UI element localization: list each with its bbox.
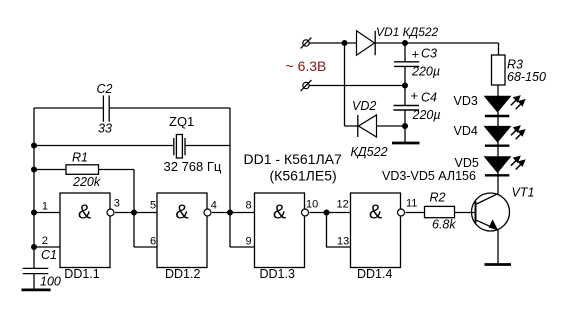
gate DD1.4 bbox=[351, 193, 405, 281]
junction node DD1.3-DD1.4 bbox=[324, 210, 330, 216]
svg-text:3: 3 bbox=[114, 198, 120, 210]
junction node DD1.1-DD1.2 bbox=[131, 210, 137, 216]
svg-text:&: & bbox=[369, 202, 383, 224]
svg-text:8: 8 bbox=[246, 200, 252, 212]
svg-text:6: 6 bbox=[150, 236, 156, 248]
svg-text:C3: C3 bbox=[421, 47, 437, 61]
svg-text:КД522: КД522 bbox=[351, 145, 388, 159]
wire: crystal wire left bbox=[34, 145, 174, 147]
capacitor C4 bbox=[404, 86, 406, 127]
svg-text:9: 9 bbox=[246, 236, 252, 248]
wire: DD1.4 pin13 tap bbox=[327, 213, 351, 248]
svg-text:2: 2 bbox=[42, 235, 48, 247]
gate DD1.1 bbox=[60, 193, 114, 281]
ground bar VT1 bbox=[485, 263, 512, 266]
svg-text:DD1.3: DD1.3 bbox=[260, 267, 295, 281]
svg-text:VD3-VD5 АЛ156: VD3-VD5 АЛ156 bbox=[382, 169, 476, 183]
svg-text:(К561ЛЕ5): (К561ЛЕ5) bbox=[270, 168, 337, 184]
svg-text:6.8k: 6.8k bbox=[432, 218, 456, 232]
svg-text:13: 13 bbox=[337, 236, 349, 248]
wire: vertical to VD2 bbox=[345, 43, 359, 126]
svg-text:4: 4 bbox=[211, 200, 217, 212]
ground bar power bbox=[392, 142, 420, 145]
junction dots left rail bbox=[31, 143, 37, 149]
terminal top bbox=[303, 40, 309, 46]
wire: R1 left bbox=[34, 169, 66, 171]
wire: right vertical of oscillator loop x=230 bbox=[229, 108, 231, 247]
wire: VD2 to node bbox=[377, 125, 406, 127]
wire: top terminal to VD1 bbox=[309, 42, 356, 44]
resistor R1 bbox=[66, 165, 99, 175]
wire: DD1.1 out to DD1.2 in bbox=[115, 212, 157, 214]
svg-text:ZQ1: ZQ1 bbox=[169, 114, 194, 129]
svg-text:VD1 КД522: VD1 КД522 bbox=[376, 25, 439, 39]
svg-text:+: + bbox=[411, 88, 419, 103]
svg-text:68-150: 68-150 bbox=[507, 70, 546, 84]
wire: left rail x=34 bbox=[33, 108, 35, 268]
wire: top C2 wire right bbox=[110, 107, 230, 109]
wire: DD1.2 pin6 tap bbox=[134, 246, 157, 248]
svg-text:VD5: VD5 bbox=[455, 156, 479, 170]
svg-text:&: & bbox=[175, 202, 189, 224]
wire: emitter down bbox=[497, 230, 499, 263]
LED VD5 bbox=[485, 157, 511, 173]
junction dots power bbox=[342, 40, 348, 46]
svg-text:DD1.4: DD1.4 bbox=[357, 267, 392, 281]
svg-text:DD1 - К561ЛА7: DD1 - К561ЛА7 bbox=[244, 151, 342, 167]
wire: top C2 wire left bbox=[34, 107, 103, 109]
VD3 arrows bbox=[511, 96, 525, 109]
svg-text:1: 1 bbox=[42, 201, 48, 213]
svg-text:220µ: 220µ bbox=[411, 65, 440, 79]
svg-text:VD3: VD3 bbox=[454, 94, 478, 108]
capacitor C3 bbox=[404, 43, 406, 86]
svg-text:10: 10 bbox=[306, 199, 318, 211]
resistor R2 bbox=[425, 206, 455, 217]
wire: crystal wire right bbox=[185, 145, 230, 147]
svg-text:C4: C4 bbox=[421, 91, 437, 105]
svg-text:DD1.2: DD1.2 bbox=[165, 267, 200, 281]
wire: DD1.3 out to DD1.4 in bbox=[310, 212, 351, 214]
resistor R3 bbox=[492, 55, 506, 85]
diode VD2 bbox=[359, 115, 377, 137]
VD5 arrows bbox=[511, 156, 525, 169]
wire: R2 to base bbox=[455, 212, 476, 214]
svg-text:C2: C2 bbox=[97, 82, 113, 96]
crystal ZQ1 bbox=[174, 138, 185, 155]
diode VD1 bbox=[357, 31, 375, 55]
svg-text:11: 11 bbox=[406, 198, 417, 210]
svg-text:33: 33 bbox=[98, 122, 112, 136]
svg-text:C1: C1 bbox=[41, 248, 57, 262]
svg-text:~ 6.3В: ~ 6.3В bbox=[286, 58, 327, 74]
LED VD3 bbox=[485, 96, 511, 112]
wire: DD1.2 out to DD1.3 in bbox=[212, 212, 255, 214]
terminal bottom bbox=[303, 82, 309, 88]
svg-text:5: 5 bbox=[150, 200, 156, 212]
ground bar under C1 bbox=[22, 288, 51, 291]
svg-text:&: & bbox=[273, 202, 287, 224]
svg-text:VD2: VD2 bbox=[352, 99, 376, 113]
capacitor C2 bbox=[103, 96, 109, 122]
gate DD1.2 bbox=[157, 193, 211, 281]
capacitor C1 bbox=[23, 268, 49, 273]
svg-text:R2: R2 bbox=[430, 191, 446, 205]
LED VD4 bbox=[485, 126, 511, 142]
svg-text:VT1: VT1 bbox=[512, 186, 535, 200]
transistor VT1 bbox=[472, 186, 535, 231]
wire: C1 to ground bbox=[33, 274, 35, 289]
wire: DD1.1 pin1 bbox=[34, 212, 60, 214]
wire: R1 right + down bbox=[99, 170, 135, 248]
svg-text:R1: R1 bbox=[72, 151, 88, 165]
VD4 arrows bbox=[511, 126, 525, 139]
svg-text:&: & bbox=[78, 202, 92, 224]
wire: DD1.1 pin2 bbox=[34, 246, 60, 248]
svg-text:220k: 220k bbox=[72, 175, 101, 189]
wire: LED chain vertical bbox=[497, 85, 499, 194]
wire: VD1 to C3 node and right bbox=[375, 43, 498, 55]
svg-text:DD1.1: DD1.1 bbox=[64, 267, 99, 281]
svg-text:220µ: 220µ bbox=[412, 108, 441, 122]
wire: DD1.3 pin9 tap bbox=[230, 246, 255, 248]
wire: node to ground bbox=[404, 126, 406, 142]
svg-text:VD4: VD4 bbox=[454, 124, 478, 138]
wire: bottom terminal to C3/C4 node bbox=[309, 85, 405, 87]
svg-text:100: 100 bbox=[40, 275, 61, 289]
svg-text:32 768 Гц: 32 768 Гц bbox=[164, 159, 222, 174]
svg-text:+: + bbox=[412, 47, 420, 62]
gate DD1.3 bbox=[255, 193, 309, 281]
junction node DD1.2-DD1.3 bbox=[227, 210, 233, 216]
svg-text:12: 12 bbox=[337, 199, 349, 211]
wire: DD1.4 out to R2 bbox=[406, 212, 425, 214]
